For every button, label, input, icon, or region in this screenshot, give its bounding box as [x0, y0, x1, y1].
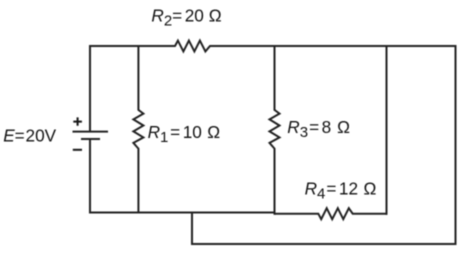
svg-text:R2=20Ω: R2=20Ω — [151, 6, 221, 30]
svg-text:R1=10Ω: R1=10Ω — [148, 122, 221, 146]
svg-text:E=20V: E=20V — [3, 126, 56, 146]
svg-text:R4=12Ω: R4=12Ω — [305, 179, 377, 203]
svg-text:R3=8Ω: R3=8Ω — [287, 117, 350, 141]
